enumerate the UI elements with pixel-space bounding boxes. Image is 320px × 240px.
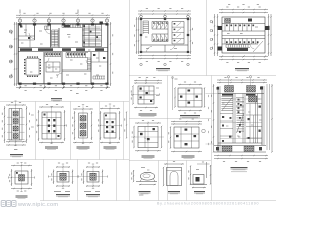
svg-text:www.nipic.com: www.nipic.com xyxy=(17,202,58,208)
svg-text:By.zhaowenhui20090805080003261: By.zhaowenhui2009080508000326180411890 xyxy=(157,202,259,206)
